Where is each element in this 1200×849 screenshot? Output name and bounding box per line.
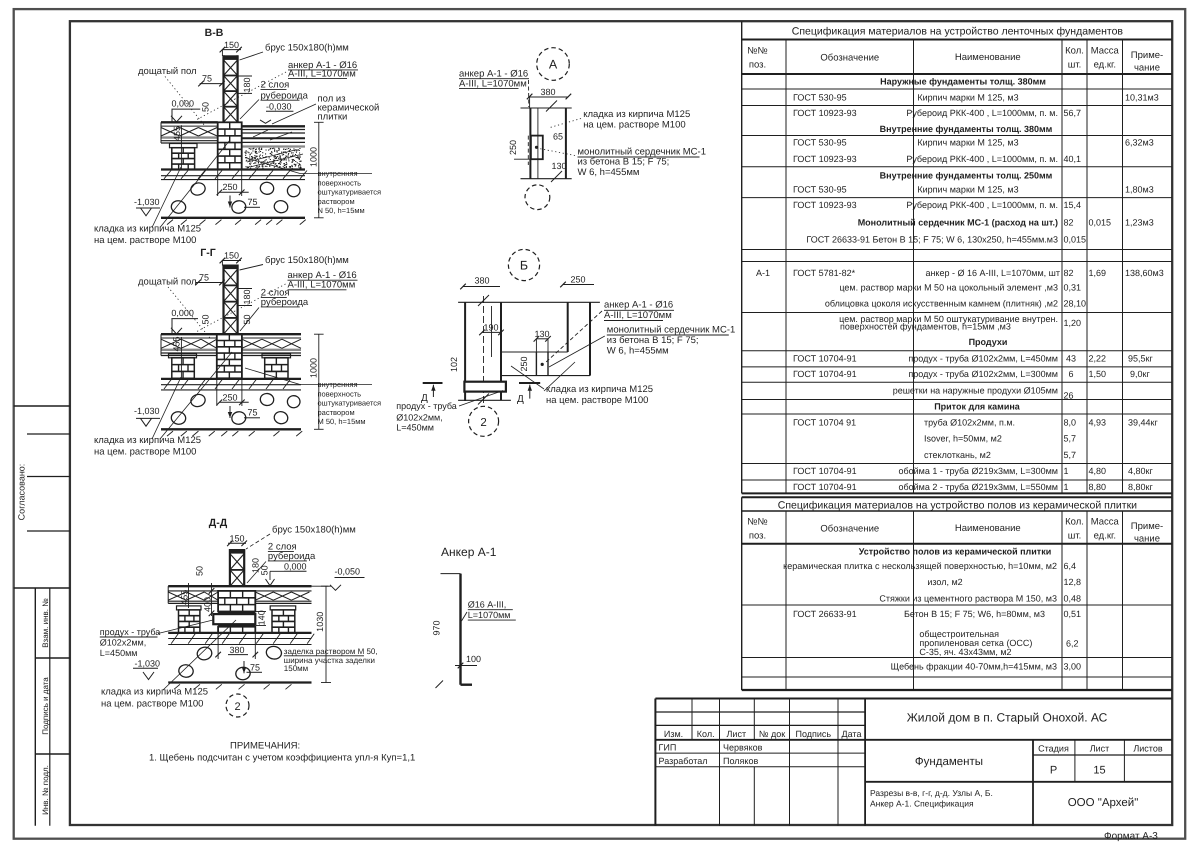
- section G-G label kladka iz kirpicha: [94, 352, 232, 458]
- section G-G timber post: [224, 265, 238, 335]
- table 2 specification poly grid: [742, 497, 1172, 690]
- svg-text:102: 102: [449, 357, 459, 372]
- svg-text:75: 75: [248, 197, 258, 207]
- svg-text:400: 400: [202, 597, 212, 612]
- section D-D ground lines: [168, 633, 314, 645]
- svg-text:138,60м3: 138,60м3: [1125, 268, 1164, 278]
- svg-text:раствором: раствором: [318, 197, 355, 206]
- svg-text:0,015: 0,015: [1064, 235, 1087, 245]
- svg-text:Ø102х2мм,: Ø102х2мм,: [396, 412, 442, 422]
- svg-text:Приток для камина: Приток для камина: [934, 402, 1021, 412]
- svg-text:380: 380: [474, 276, 489, 286]
- section B-B plank floor left: [161, 122, 218, 143]
- svg-text:0,000: 0,000: [171, 308, 194, 318]
- svg-text:Стадия: Стадия: [1038, 744, 1069, 754]
- svg-text:ГОСТ 10704-91: ГОСТ 10704-91: [793, 466, 857, 476]
- svg-text:№№: №№: [747, 517, 767, 528]
- svg-text:С-35, яч. 43х43мм, м2: С-35, яч. 43х43мм, м2: [919, 647, 1011, 657]
- svg-text:0,31: 0,31: [1064, 283, 1082, 293]
- svg-text:Рубероид РКК-400 , L=1000мм, п: Рубероид РКК-400 , L=1000мм, п. м.: [906, 200, 1058, 210]
- section G-G dim 455: [172, 336, 182, 378]
- svg-text:Лист: Лист: [1090, 744, 1110, 754]
- svg-text:1,50: 1,50: [1089, 369, 1107, 379]
- svg-text:продух - труба Ø102х2мм, L=300: продух - труба Ø102х2мм, L=300мм: [908, 369, 1058, 379]
- svg-text:Червяков: Червяков: [723, 743, 763, 753]
- svg-text:Внутренние фундаменты толщ. 25: Внутренние фундаменты толщ. 250мм: [880, 171, 1053, 181]
- svg-text:65: 65: [553, 132, 563, 142]
- section D-D dim 1030: [315, 586, 331, 682]
- svg-text:Кол.: Кол.: [1065, 46, 1084, 57]
- svg-text:Анкер А-1: Анкер А-1: [441, 545, 497, 559]
- section B-B label brus 150x180: [240, 43, 349, 61]
- section B-B label doshchaty pol: [138, 66, 205, 126]
- svg-text:150: 150: [224, 40, 239, 50]
- svg-text:дощатый пол: дощатый пол: [138, 277, 197, 288]
- svg-text:брус 150x180(h)мм: брус 150x180(h)мм: [265, 43, 349, 54]
- section G-G dim 180: [238, 289, 252, 306]
- notes primechaniya: [149, 741, 415, 764]
- detail A circle: [537, 48, 570, 81]
- title block content lines: [870, 788, 993, 809]
- detail A core MC-1 box: [528, 136, 543, 165]
- left stamp: soglasovano box: [14, 406, 70, 588]
- svg-text:Масса: Масса: [1091, 517, 1120, 528]
- svg-text:А-III, L=1070мм: А-III, L=1070мм: [459, 78, 527, 89]
- detail B label monolit core: [549, 324, 735, 367]
- svg-text:ГОСТ 26633-91: ГОСТ 26633-91: [793, 609, 857, 619]
- detail A label monolit core: [539, 146, 706, 178]
- svg-text:Формат А-3: Формат А-3: [1104, 831, 1158, 842]
- svg-text:970: 970: [432, 620, 442, 635]
- svg-text:2,22: 2,22: [1089, 354, 1107, 364]
- svg-text:ГОСТ 10704-91: ГОСТ 10704-91: [793, 369, 857, 379]
- svg-text:15: 15: [1093, 765, 1105, 777]
- svg-text:Рубероид РКК-400 , L=1000мм, п: Рубероид РКК-400 , L=1000мм, п. м.: [906, 154, 1058, 164]
- svg-text:95,5кг: 95,5кг: [1128, 354, 1153, 364]
- svg-text:15,4: 15,4: [1064, 200, 1082, 210]
- svg-text:-0,050: -0,050: [335, 567, 361, 577]
- svg-text:-1,030: -1,030: [134, 197, 160, 207]
- svg-text:Г-Г: Г-Г: [200, 247, 215, 259]
- svg-text:455: 455: [172, 126, 182, 141]
- detail B label anker: [545, 300, 674, 364]
- svg-text:поверхность: поверхность: [318, 389, 362, 398]
- detail B label kladka: [511, 362, 653, 406]
- svg-text:1030: 1030: [315, 612, 325, 632]
- svg-text:150: 150: [224, 251, 239, 261]
- svg-text:Согласовано:: Согласовано:: [17, 464, 27, 521]
- svg-text:на цем. растворе М100: на цем. растворе М100: [94, 447, 196, 458]
- svg-text:Б: Б: [520, 259, 528, 273]
- svg-text:Подпись и дата: Подпись и дата: [41, 677, 50, 735]
- svg-text:А-III, L=1070мм: А-III, L=1070мм: [604, 310, 672, 321]
- section B-B dim 250: [217, 170, 249, 197]
- svg-text:облицовка цоколя искусственным: облицовка цоколя искусственным камнем (п…: [825, 299, 1058, 309]
- section D-D label kladka iz kirpicha: [101, 620, 236, 710]
- svg-text:2: 2: [234, 701, 240, 713]
- svg-text:75: 75: [199, 273, 209, 283]
- detail B dim 190: [479, 306, 504, 357]
- title block project name: [907, 711, 1108, 725]
- section B-B dim 455: [172, 125, 182, 169]
- svg-text:Разработал: Разработал: [659, 756, 708, 766]
- title block left texts: [659, 729, 862, 766]
- svg-text:на цем. растворе М100: на цем. растворе М100: [546, 395, 648, 406]
- detail B vent pipe box: [464, 382, 506, 392]
- svg-text:Инв. № подл.: Инв. № подл.: [41, 765, 50, 815]
- section B-B left brick pier: [170, 144, 198, 170]
- svg-text:130: 130: [534, 329, 549, 339]
- svg-text:поз.: поз.: [749, 531, 766, 542]
- svg-text:12,8: 12,8: [1064, 577, 1082, 587]
- svg-text:А-III, L=1070мм: А-III, L=1070мм: [288, 69, 356, 80]
- detail A dim 250: [508, 140, 531, 159]
- svg-text:4,93: 4,93: [1089, 418, 1107, 428]
- svg-text:Поляков: Поляков: [723, 756, 758, 766]
- section G-G right brick pier: [262, 354, 291, 379]
- detail B node circle 2: [469, 406, 499, 436]
- title block sheet name: [915, 756, 983, 768]
- svg-text:Продухи: Продухи: [969, 337, 1008, 347]
- svg-text:Д: Д: [517, 394, 524, 405]
- svg-text:180: 180: [242, 77, 252, 92]
- svg-text:труба Ø102х2мм, п.м.: труба Ø102х2мм, п.м.: [924, 418, 1015, 428]
- svg-text:№№: №№: [747, 46, 767, 57]
- section D-D label produh truba: [100, 620, 213, 658]
- svg-text:Кол.: Кол.: [1065, 517, 1084, 528]
- svg-text:ГОСТ 530-95: ГОСТ 530-95: [793, 185, 847, 195]
- section B-B dim 75 arrow: [228, 196, 260, 208]
- svg-text:50: 50: [201, 314, 211, 324]
- section G-G rubble stones: [170, 393, 301, 426]
- svg-text:ГОСТ 10923-93: ГОСТ 10923-93: [793, 154, 857, 164]
- svg-text:шт.: шт.: [1068, 531, 1082, 542]
- section B-B label anker A-1: [196, 60, 358, 120]
- section D-D vent pipe opening: [213, 614, 255, 624]
- detail B wall plan: [458, 295, 600, 406]
- svg-text:N 50, h=15мм: N 50, h=15мм: [318, 206, 365, 215]
- detail B dim 250 top: [560, 275, 594, 288]
- svg-text:ГОСТ 10704-91: ГОСТ 10704-91: [793, 482, 857, 492]
- section G-G label doshchaty pol: [138, 277, 210, 339]
- svg-text:190: 190: [483, 323, 498, 333]
- section D-D level mark 0.000: [266, 562, 307, 586]
- svg-text:4,80кг: 4,80кг: [1128, 466, 1153, 476]
- detail B circle: [508, 249, 539, 280]
- svg-text:W 6, h=455мм: W 6, h=455мм: [607, 345, 669, 356]
- svg-text:на цем. растворе М100: на цем. растворе М100: [94, 235, 196, 246]
- svg-text:на цем. растворе М100: на цем. растворе М100: [583, 119, 685, 130]
- section D-D bottom line: [168, 683, 311, 690]
- section B-B note vnutrennyaya poverkhnost: [245, 158, 381, 216]
- svg-text:0,51: 0,51: [1064, 609, 1082, 619]
- svg-text:1,20: 1,20: [1064, 318, 1082, 328]
- section G-G level mark -1.030: [134, 406, 160, 426]
- svg-text:Жилой дом в п. Старый Онохой.: Жилой дом в п. Старый Онохой. АС: [907, 711, 1108, 725]
- svg-text:Листов: Листов: [1133, 744, 1162, 754]
- svg-text:Внутренние фундаменты толщ. 38: Внутренние фундаменты толщ. 380мм: [880, 124, 1053, 134]
- svg-text:Фундаменты: Фундаменты: [915, 756, 983, 768]
- svg-text:Стяжки из цементного раствора: Стяжки из цементного раствора М 150, м3: [879, 593, 1057, 603]
- svg-text:поверхностей фундаментов, h=15: поверхностей фундаментов, h=15мм ,м3: [840, 322, 1011, 332]
- section D-D node circle 2: [226, 694, 249, 717]
- svg-text:керамическая плитка с нескольз: керамическая плитка с нескользящей повер…: [783, 561, 1057, 571]
- svg-text:250: 250: [570, 275, 585, 285]
- svg-text:82: 82: [1064, 218, 1074, 228]
- svg-text:50: 50: [201, 102, 211, 112]
- table 2 header texts: [747, 517, 1163, 545]
- section G-G dim 75 arrow: [228, 406, 260, 418]
- svg-text:3,00: 3,00: [1064, 662, 1082, 672]
- svg-text:0,000: 0,000: [172, 98, 195, 108]
- svg-text:дощатый пол: дощатый пол: [138, 66, 197, 77]
- section G-G note vnutrennyaya poverkhnost: [245, 368, 381, 426]
- svg-text:39,44кг: 39,44кг: [1128, 418, 1158, 428]
- left stamp: vzam inv cell: [35, 588, 70, 826]
- svg-text:Д-Д: Д-Д: [209, 517, 228, 529]
- svg-text:Приме-: Приме-: [1131, 50, 1163, 61]
- section D-D dim 400: [202, 583, 214, 616]
- detail A label kladka: [550, 109, 690, 130]
- section D-D dim 50 left: [195, 566, 205, 576]
- svg-text:43: 43: [1066, 354, 1076, 364]
- svg-text:Спецификация материалов на уст: Спецификация материалов на устройство по…: [778, 500, 1137, 512]
- section G-G dim 250: [217, 378, 249, 406]
- svg-text:Кирпич марки М 125, м3: Кирпич марки М 125, м3: [917, 138, 1018, 148]
- section B-B title: [205, 27, 224, 39]
- svg-text:брус 150x180(h)мм: брус 150x180(h)мм: [265, 255, 349, 266]
- section G-G bottom line: [161, 429, 302, 436]
- svg-text:1. Щебень подсчитан с учетом к: 1. Щебень подсчитан с учетом коэффициент…: [149, 753, 415, 764]
- svg-text:Кирпич марки М 125, м3: Кирпич марки М 125, м3: [917, 185, 1018, 195]
- svg-text:28,10: 28,10: [1064, 299, 1087, 309]
- svg-text:ПРИМЕЧАНИЯ:: ПРИМЕЧАНИЯ:: [230, 741, 300, 752]
- section G-G label 2 sloya ruberoida: [240, 288, 309, 332]
- detail B section mark D right: [517, 383, 540, 405]
- section B-B central brick pier: [218, 122, 242, 169]
- table 2 data texts: [783, 547, 1081, 672]
- svg-text:1000: 1000: [309, 358, 319, 378]
- svg-text:0,015: 0,015: [1089, 218, 1112, 228]
- svg-text:50: 50: [195, 566, 205, 576]
- svg-text:ГОСТ 10704 91: ГОСТ 10704 91: [793, 418, 856, 428]
- svg-text:75: 75: [248, 408, 258, 418]
- svg-text:82: 82: [1064, 268, 1074, 278]
- section G-G label anker A-1: [196, 270, 358, 332]
- svg-text:ГОСТ 26633-91 Бетон В 15; F 7: ГОСТ 26633-91 Бетон В 15; F 75; W 6, 130…: [806, 235, 1058, 245]
- svg-text:-1,030: -1,030: [134, 406, 160, 416]
- svg-text:50: 50: [242, 314, 252, 324]
- section D-D band below vent: [218, 624, 255, 627]
- svg-text:заделка раствором М 50,: заделка раствором М 50,: [284, 647, 378, 656]
- section D-D dim 150: [227, 534, 247, 547]
- svg-text:W 6, h=455мм: W 6, h=455мм: [578, 167, 640, 178]
- svg-text:рубероида: рубероида: [268, 551, 316, 562]
- svg-text:Разрезы в-в, г-г, д-д. Узлы А,: Разрезы в-в, г-г, д-д. Узлы А, Б.: [870, 788, 993, 798]
- section G-G plank floor: [161, 334, 301, 355]
- svg-text:8,80кг: 8,80кг: [1128, 482, 1153, 492]
- svg-text:Анкер А-1. Спецификация: Анкер А-1. Спецификация: [870, 799, 974, 809]
- svg-text:75: 75: [202, 74, 212, 84]
- svg-text:L=450мм: L=450мм: [396, 422, 434, 432]
- svg-text:250: 250: [508, 140, 518, 155]
- svg-text:8,0: 8,0: [1064, 418, 1077, 428]
- anchor A-1 bottom tick: [436, 681, 444, 689]
- svg-text:380: 380: [540, 87, 555, 97]
- left stamp: inv no podl cell: [41, 765, 50, 815]
- svg-text:380: 380: [229, 645, 244, 655]
- svg-text:Подпись: Подпись: [795, 729, 831, 739]
- svg-text:Бетон В 15; F 75; W6, h=80мм,: Бетон В 15; F 75; W6, h=80мм, м3: [904, 609, 1045, 619]
- detail B dim 130: [534, 329, 551, 352]
- svg-text:9,0кг: 9,0кг: [1130, 369, 1150, 379]
- detail B dim 250 rot: [519, 356, 529, 371]
- svg-text:Лист: Лист: [727, 729, 747, 739]
- svg-text:Наименование: Наименование: [955, 52, 1021, 63]
- svg-text:-0,030: -0,030: [266, 101, 292, 111]
- svg-text:ГОСТ 10923-93: ГОСТ 10923-93: [793, 108, 857, 118]
- section G-G dim 75: [195, 273, 225, 286]
- svg-text:стеклоткань, м2: стеклоткань, м2: [924, 450, 991, 460]
- section B-B level mark -1.030: [134, 197, 160, 216]
- detail A dim 380: [527, 87, 571, 108]
- svg-text:цем. раствор марки М 50 на цок: цем. раствор марки М 50 на цокольный эле…: [839, 283, 1058, 293]
- svg-text:130: 130: [551, 161, 566, 171]
- section D-D ruberoid band: [218, 612, 255, 615]
- svg-text:Isover, h=50мм, м2: Isover, h=50мм, м2: [924, 434, 1002, 444]
- svg-text:оштукатуривается: оштукатуривается: [318, 188, 382, 197]
- section D-D dim 50 mid: [260, 565, 270, 575]
- svg-text:А: А: [549, 58, 558, 72]
- section G-G level mark 0.000: [171, 308, 198, 334]
- svg-text:ГОСТ 530-95: ГОСТ 530-95: [793, 93, 847, 103]
- detail B dim 380: [460, 276, 500, 290]
- section B-B rubble stones: [170, 181, 301, 214]
- svg-text:продух - труба: продух - труба: [100, 627, 161, 637]
- section B-B dim 180: [238, 76, 252, 93]
- section D-D timber post: [230, 549, 244, 586]
- section B-B bottom line: [161, 218, 306, 225]
- section B-B dim 50: [201, 102, 211, 112]
- svg-text:Монолитный сердечник МС-1 (рас: Монолитный сердечник МС-1 (расход на шт.…: [858, 218, 1058, 228]
- detail A bottom circle: [525, 185, 550, 210]
- svg-text:А-III, L=1070мм: А-III, L=1070мм: [288, 280, 356, 291]
- svg-text:Обозначение: Обозначение: [820, 524, 879, 535]
- svg-text:26: 26: [1064, 391, 1074, 401]
- svg-text:Взам. инв. №: Взам. инв. №: [41, 598, 50, 648]
- svg-text:продух - труба Ø102х2мм, L=450: продух - труба Ø102х2мм, L=450мм: [908, 354, 1058, 364]
- section B-B tile floor right: [242, 126, 305, 146]
- svg-text:8,80: 8,80: [1089, 482, 1107, 492]
- svg-text:поверхность: поверхность: [318, 178, 362, 187]
- svg-text:М 50, h=15мм: М 50, h=15мм: [318, 417, 366, 426]
- svg-text:Изм.: Изм.: [664, 729, 683, 739]
- svg-text:455: 455: [172, 336, 182, 351]
- svg-text:кладка из кирпича М125: кладка из кирпича М125: [94, 435, 201, 446]
- svg-text:ед.кг.: ед.кг.: [1094, 531, 1116, 542]
- svg-text:2 слоя: 2 слоя: [261, 80, 290, 91]
- svg-text:0,48: 0,48: [1064, 593, 1082, 603]
- svg-text:кладка из кирпича М125: кладка из кирпича М125: [101, 687, 208, 698]
- svg-text:10,31м3: 10,31м3: [1125, 93, 1159, 103]
- svg-text:Наименование: Наименование: [955, 523, 1021, 534]
- svg-text:раствором: раствором: [318, 408, 355, 417]
- section B-B label kladka iz kirpicha: [94, 140, 230, 246]
- anchor A-1 dim 970: [432, 620, 442, 635]
- detail A label anker: [459, 69, 529, 108]
- section B-B timber post: [224, 55, 238, 122]
- section B-B label 2 sloya ruberoida: [240, 80, 309, 120]
- section D-D right brick pier: [270, 606, 296, 633]
- section B-B concrete stipple: [245, 148, 304, 168]
- svg-text:решетки на наружные продухи Ø1: решетки на наружные продухи Ø105мм: [893, 386, 1058, 396]
- table 1 header texts: [747, 46, 1163, 74]
- section G-G left brick pier: [169, 354, 197, 379]
- detail B core box: [536, 352, 548, 376]
- svg-text:-1,030: -1,030: [135, 659, 161, 669]
- svg-text:180: 180: [242, 289, 252, 304]
- section D-D rubble stones: [178, 645, 282, 681]
- section D-D dim 75 arrow: [242, 661, 262, 673]
- svg-text:150мм: 150мм: [284, 664, 308, 673]
- section B-B ground lines: [161, 170, 307, 180]
- detail B section mark D left: [421, 383, 443, 404]
- svg-text:6,2: 6,2: [1066, 639, 1079, 649]
- svg-text:кладка из кирпича М125: кладка из кирпича М125: [546, 384, 653, 395]
- section B-B dim 1000: [309, 122, 324, 218]
- svg-text:ГОСТ 530-95: ГОСТ 530-95: [793, 138, 847, 148]
- section G-G dim 50 right: [242, 314, 252, 324]
- svg-text:продух - труба: продух - труба: [396, 401, 457, 411]
- svg-text:Ø16 А-III,: Ø16 А-III,: [468, 600, 507, 610]
- svg-text:плитки: плитки: [318, 112, 348, 123]
- svg-text:монолитный сердечник МС-1: монолитный сердечник МС-1: [607, 324, 736, 335]
- svg-text:шт.: шт.: [1068, 60, 1082, 71]
- left stamp: podpis i data cell: [35, 677, 70, 754]
- svg-text:ГОСТ 5781-82*: ГОСТ 5781-82*: [793, 268, 856, 278]
- section D-D dim 180: [251, 558, 261, 573]
- svg-text:Кол.: Кол.: [697, 729, 715, 739]
- section D-D dim 455: [180, 583, 190, 608]
- section D-D left brick pier: [177, 606, 202, 633]
- svg-text:чание: чание: [1134, 534, 1160, 545]
- svg-text:1: 1: [1064, 466, 1069, 476]
- svg-text:250: 250: [222, 182, 237, 192]
- section D-D note zadelka rastvorom: [284, 647, 378, 673]
- svg-text:А-1: А-1: [756, 268, 770, 278]
- svg-text:L=450мм: L=450мм: [100, 648, 138, 658]
- svg-text:ООО "Архей": ООО "Архей": [1068, 797, 1139, 809]
- section D-D dim 380: [215, 633, 258, 659]
- section B-B level mark 0.000: [171, 98, 200, 122]
- svg-text:2: 2: [480, 417, 486, 429]
- section D-D central brick pier lower: [218, 627, 255, 633]
- svg-text:Наружные фундаменты толщ. 380м: Наружные фундаменты толщ. 380мм: [880, 77, 1046, 87]
- svg-text:Р: Р: [1050, 765, 1057, 777]
- svg-text:6,32м3: 6,32м3: [1125, 138, 1154, 148]
- section B-B level mark -0.030: [260, 101, 293, 123]
- svg-text:анкер - Ø 16 А-III, L=1070мм,: анкер - Ø 16 А-III, L=1070мм, шт: [925, 268, 1060, 278]
- section G-G dim 150: [220, 251, 242, 266]
- svg-text:50: 50: [260, 565, 270, 575]
- section D-D dim 140: [255, 610, 266, 625]
- svg-text:№ док: № док: [759, 729, 785, 739]
- section G-G dim 1000: [309, 334, 324, 429]
- svg-text:5,7: 5,7: [1064, 434, 1077, 444]
- detail B label produh truba: [396, 391, 503, 433]
- svg-text:455: 455: [180, 590, 190, 605]
- svg-text:Дата: Дата: [842, 729, 862, 739]
